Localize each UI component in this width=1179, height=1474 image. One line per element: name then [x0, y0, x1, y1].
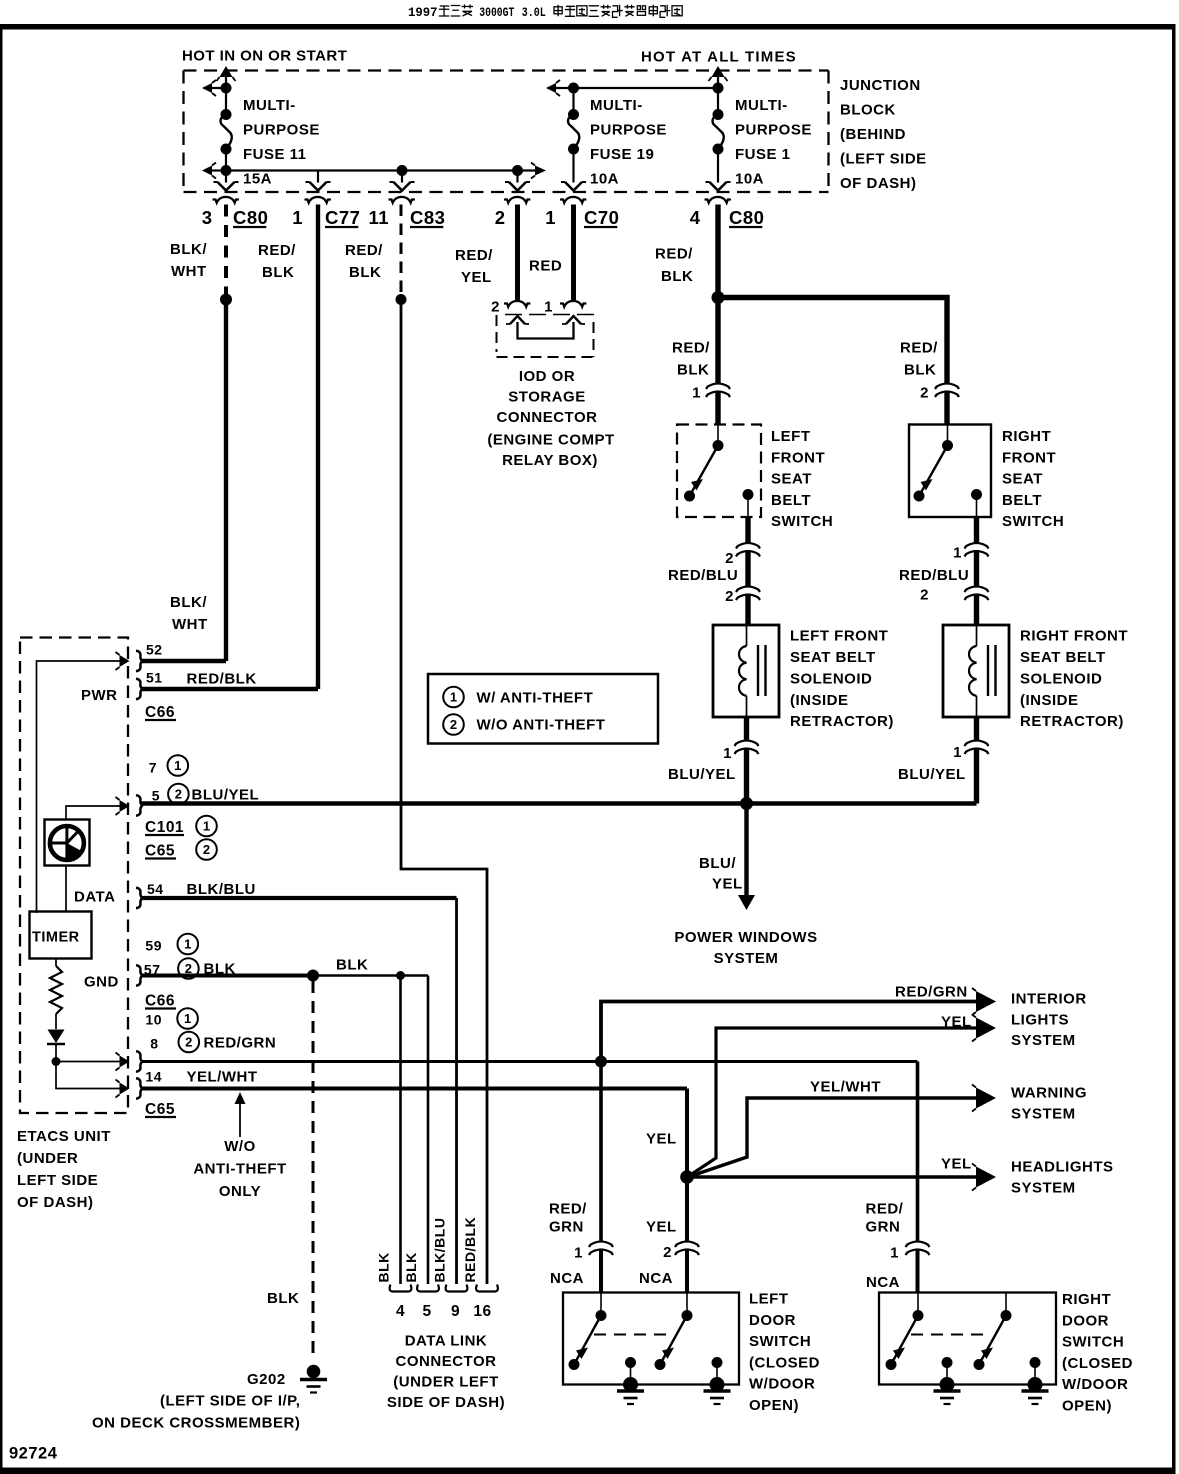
fuse F11 element: [225, 88, 227, 115]
svg-text:1: 1: [203, 819, 210, 834]
svg-text:BLK: BLK: [349, 264, 381, 281]
svg-text:BLK: BLK: [262, 264, 294, 281]
svg-text:YEL: YEL: [941, 1156, 972, 1173]
svg-text:5: 5: [152, 788, 160, 804]
svg-text:10A: 10A: [590, 171, 619, 188]
svg-text:RED/GRN: RED/GRN: [895, 984, 968, 1001]
svg-text:2: 2: [175, 787, 182, 802]
svg-text:(INSIDE: (INSIDE: [790, 692, 849, 709]
svg-text:52: 52: [146, 642, 163, 658]
ETACS pin 51 connector: [136, 679, 142, 699]
svg-text:RED/: RED/: [455, 247, 493, 264]
ETACS clock icon: [45, 820, 90, 866]
feed arrow to left (other circuits): [546, 83, 556, 93]
arrow to left (other circuits) at fuse11 bottom: [212, 169, 226, 171]
svg-text:1: 1: [723, 745, 732, 762]
DLC wire label BLK (pin5, rotated): [403, 1252, 419, 1282]
svg-text:59: 59: [145, 938, 162, 954]
svg-text:SWITCH: SWITCH: [1002, 513, 1064, 530]
svg-text:RED/: RED/: [672, 340, 710, 357]
svg-text:JUNCTION: JUNCTION: [840, 77, 921, 94]
svg-text:WHT: WHT: [171, 263, 207, 280]
svg-text:BLU/: BLU/: [699, 855, 736, 872]
inline connector pin 1 (right solenoid out): [965, 741, 989, 747]
svg-text:5: 5: [422, 1303, 431, 1320]
wire RED/BLK down and over to DLC pin 16: [401, 300, 487, 1285]
ETACS internal diode: [55, 1014, 57, 1029]
svg-text:RED/: RED/: [866, 1201, 904, 1218]
svg-text:C65: C65: [145, 1101, 175, 1118]
TIMER box: [30, 912, 92, 959]
svg-text:2: 2: [920, 385, 929, 402]
hot-at-all-times feed wire: [556, 87, 718, 89]
svg-text:BLK/: BLK/: [170, 241, 207, 258]
svg-text:1: 1: [953, 545, 962, 562]
ETACS pin 14 connector: [136, 1078, 142, 1098]
svg-text:GRN: GRN: [549, 1219, 584, 1236]
svg-text:SYSTEM: SYSTEM: [1011, 1180, 1076, 1197]
svg-text:FUSE 19: FUSE 19: [590, 146, 654, 163]
svg-text:RED/BLU: RED/BLU: [899, 567, 969, 584]
svg-text:C65: C65: [145, 843, 175, 860]
left front seat belt switch dashed box: [677, 425, 761, 518]
svg-text:NCA: NCA: [550, 1270, 584, 1287]
connector C80 pin 3 female: [213, 197, 239, 203]
fuse F19 element: [572, 88, 574, 115]
inline connector pin 2 lower (left): [736, 587, 760, 593]
svg-text:RED: RED: [529, 258, 562, 275]
wire BLK pin 57 ground bus: [142, 974, 314, 978]
splice dot on BLK/WHT: [220, 294, 232, 306]
svg-text:OPEN): OPEN): [1062, 1398, 1112, 1415]
svg-text:1: 1: [953, 744, 962, 761]
svg-text:RIGHT: RIGHT: [1062, 1291, 1111, 1308]
wire RED/YEL from C70-2: [515, 205, 520, 301]
junction dot YEL: [680, 1170, 694, 1184]
arrow to WARNING SYSTEM: [976, 1088, 996, 1109]
ETACS internal junction dot: [52, 1057, 61, 1066]
svg-text:BLU/YEL: BLU/YEL: [668, 766, 736, 783]
svg-text:92724: 92724: [9, 1445, 58, 1463]
svg-text:10A: 10A: [735, 171, 764, 188]
data link connector braces: [390, 1285, 412, 1292]
connector C70 pin 2 female: [504, 197, 530, 203]
svg-text:1: 1: [184, 1011, 191, 1026]
svg-text:BELT: BELT: [771, 492, 811, 509]
svg-text:16: 16: [473, 1303, 491, 1320]
left front seat belt solenoid L1: [713, 625, 779, 717]
wire RED/GRN pin 8 main: [142, 1060, 918, 1063]
wire RED/BLK branch to right seat belt switch: [718, 298, 947, 384]
svg-text:2: 2: [495, 207, 506, 228]
svg-text:LIGHTS: LIGHTS: [1011, 1012, 1069, 1029]
inline connector pin 1 (left switch): [706, 384, 730, 390]
wire YEL down to left door switch: [685, 1177, 689, 1241]
svg-text:YEL: YEL: [461, 269, 492, 286]
wire YEL to interior lights: [691, 1028, 976, 1175]
junction dot fuse1 top: [713, 83, 724, 94]
wire YEL/WHT to warning system: [691, 1098, 976, 1176]
svg-text:OF DASH): OF DASH): [17, 1194, 94, 1211]
svg-text:LEFT: LEFT: [771, 428, 811, 445]
inline connector pin 2 (right switch): [935, 384, 959, 390]
connector C70 pin 1 female: [560, 197, 586, 203]
svg-text:RED/: RED/: [655, 246, 693, 263]
svg-text:YEL/WHT: YEL/WHT: [187, 1069, 258, 1086]
wire pin 51 to RED/BLK: [142, 687, 319, 691]
arrow to POWER WINDOWS SYSTEM: [744, 804, 748, 896]
svg-text:C66: C66: [145, 704, 175, 721]
fuse F1 feed arrow from HOT AT ALL TIMES: [717, 76, 719, 88]
svg-text:SOLENOID: SOLENOID: [790, 670, 872, 687]
arrow to left (other circuits) at fuse11 top: [212, 87, 226, 89]
svg-text:PURPOSE: PURPOSE: [735, 122, 812, 139]
junction dot fuse11 bottom: [221, 165, 232, 176]
svg-text:BELT: BELT: [1002, 492, 1042, 509]
svg-text:FRONT: FRONT: [1002, 449, 1056, 466]
svg-text:YEL: YEL: [646, 1131, 677, 1148]
junction dot fuse19 top: [568, 83, 579, 94]
title CJK glyphs: [439, 6, 450, 16]
wire BLK to DLC pin 4: [399, 976, 402, 1285]
svg-text:RED/: RED/: [549, 1201, 587, 1218]
wire from right switch contact: [974, 517, 979, 543]
junction dot RED/GRN: [595, 1056, 607, 1068]
svg-text:GRN: GRN: [866, 1219, 901, 1236]
junction dot RED/BLK branch: [712, 291, 725, 304]
ETACS internal wire to pin 52: [37, 661, 121, 913]
svg-text:SIDE OF DASH): SIDE OF DASH): [387, 1394, 505, 1411]
svg-text:YEL: YEL: [646, 1219, 677, 1236]
svg-text:FRONT: FRONT: [771, 449, 825, 466]
svg-text:9: 9: [451, 1303, 460, 1320]
svg-text:CONNECTOR: CONNECTOR: [396, 1353, 497, 1370]
arrow to INTERIOR LIGHTS SYSTEM (RED/GRN): [976, 991, 996, 1012]
junction dot BLU/YEL bus: [740, 797, 753, 810]
svg-text:1: 1: [184, 937, 191, 952]
svg-text:OPEN): OPEN): [749, 1397, 799, 1414]
svg-text:2: 2: [663, 1244, 672, 1261]
svg-text:(UNDER LEFT: (UNDER LEFT: [393, 1374, 499, 1391]
ETACS pin 52 connector: [136, 651, 142, 671]
svg-text:RED/BLK: RED/BLK: [187, 671, 257, 688]
svg-text:SWITCH: SWITCH: [749, 1333, 811, 1350]
svg-text:BLK/BLU: BLK/BLU: [432, 1218, 448, 1283]
svg-text:RIGHT: RIGHT: [1002, 428, 1051, 445]
svg-text:W/O ANTI-THEFT: W/O ANTI-THEFT: [477, 717, 606, 734]
svg-text:C80: C80: [233, 207, 268, 228]
svg-text:4: 4: [396, 1303, 405, 1320]
svg-text:ON DECK CROSSMEMBER): ON DECK CROSSMEMBER): [92, 1415, 300, 1432]
left seat belt switch symbol: [717, 425, 719, 442]
svg-text:W/O: W/O: [224, 1138, 256, 1155]
svg-text:DATA LINK: DATA LINK: [405, 1333, 488, 1350]
wire below left solenoid: [744, 717, 749, 740]
svg-text:(LEFT SIDE OF I/P,: (LEFT SIDE OF I/P,: [160, 1393, 300, 1410]
svg-text:SEAT: SEAT: [771, 471, 812, 488]
wire BLK/WHT down to ETACS pin 52: [224, 300, 228, 662]
ETACS internal wire clock to timer: [65, 866, 67, 912]
svg-text:BLU/YEL: BLU/YEL: [898, 766, 966, 783]
wire RED/GRN down to right door switch: [916, 1062, 920, 1241]
svg-text:MULTI-: MULTI-: [590, 97, 643, 114]
splice dot on C83 wire: [396, 294, 407, 305]
junction dot BLK at G202 branch: [307, 970, 319, 982]
junction dot fuse11 top: [221, 83, 232, 94]
svg-text:2: 2: [450, 717, 457, 732]
svg-text:PURPOSE: PURPOSE: [243, 122, 320, 139]
svg-text:10: 10: [145, 1012, 162, 1028]
svg-text:LEFT FRONT: LEFT FRONT: [790, 628, 888, 645]
right door switch: [879, 1293, 1056, 1385]
svg-text:C70: C70: [584, 207, 619, 228]
IOD male arrows and shorting loop: [510, 316, 525, 324]
svg-text:MULTI-: MULTI-: [735, 97, 788, 114]
wire RED/GRN down to left door switch: [599, 1062, 603, 1241]
svg-text:BLU/YEL: BLU/YEL: [192, 787, 260, 804]
svg-text:2: 2: [491, 299, 500, 316]
svg-text:(CLOSED: (CLOSED: [1062, 1355, 1133, 1372]
svg-text:POWER WINDOWS: POWER WINDOWS: [674, 929, 817, 946]
svg-text:YEL: YEL: [712, 876, 743, 893]
svg-text:BLK: BLK: [403, 1252, 419, 1282]
svg-text:C66: C66: [145, 993, 175, 1010]
svg-text:RED/: RED/: [258, 242, 296, 259]
svg-text:(INSIDE: (INSIDE: [1020, 692, 1079, 709]
svg-text:7: 7: [149, 760, 157, 776]
svg-text:3: 3: [202, 207, 213, 228]
svg-text:BLK: BLK: [376, 1252, 392, 1282]
legend box W/ ANTI-THEFT, W/O ANTI-THEFT: [428, 674, 658, 744]
wire BLK/BLU pin 54 to DLC pin 9: [142, 896, 457, 900]
IOD dashed box: [496, 315, 498, 352]
svg-text:SOLENOID: SOLENOID: [1020, 670, 1102, 687]
ETACS internal resistor: [55, 959, 57, 967]
frame right border: [1172, 24, 1176, 1474]
svg-text:STORAGE: STORAGE: [508, 389, 585, 406]
svg-text:RELAY BOX): RELAY BOX): [502, 452, 598, 469]
svg-text:SEAT BELT: SEAT BELT: [1020, 649, 1106, 666]
svg-text:1: 1: [692, 385, 701, 402]
svg-text:HOT AT ALL TIMES: HOT AT ALL TIMES: [641, 49, 797, 66]
bus junction dot at C70 branch: [512, 165, 523, 176]
wire YEL/WHT from ETACS pin 14: [142, 1087, 688, 1091]
svg-text:1: 1: [450, 690, 457, 705]
fuse F11 feed arrow from HOT IN ON OR START: [225, 76, 227, 88]
svg-text:3000GT: 3000GT: [479, 6, 514, 20]
wire YEL to headlights: [687, 1175, 976, 1178]
junction dot BLK at DLC4 branch: [396, 971, 405, 980]
ETACS unit dashed box: [20, 638, 128, 1114]
ETACS pin 54 connector DATA: [136, 888, 142, 908]
svg-text:BLK: BLK: [904, 362, 936, 379]
svg-text:W/DOOR: W/DOOR: [749, 1376, 815, 1393]
svg-text:SEAT BELT: SEAT BELT: [790, 649, 876, 666]
wire RED/GRN up to interior lights: [601, 1002, 976, 1062]
ETACS internal wire to pin 8: [56, 1061, 120, 1063]
svg-text:RED/: RED/: [345, 242, 383, 259]
ETACS pin 5/7 connector: [136, 795, 142, 815]
inline connector pin 1 upper (right): [965, 543, 989, 549]
svg-text:PWR: PWR: [81, 687, 118, 704]
bus end arrow right: [535, 166, 546, 176]
svg-text:4: 4: [690, 207, 701, 228]
wire BLU/YEL bus from ETACS pin 5: [142, 801, 977, 805]
svg-text:RED/BLK: RED/BLK: [462, 1217, 478, 1283]
svg-text:2: 2: [725, 588, 734, 605]
svg-text:WARNING: WARNING: [1011, 1085, 1087, 1102]
svg-text:BLK: BLK: [677, 362, 709, 379]
svg-text:INTERIOR: INTERIOR: [1011, 991, 1087, 1008]
frame left border: [0, 24, 3, 1474]
svg-text:G202: G202: [247, 1371, 286, 1388]
right switch fixed contact: [971, 489, 982, 500]
wire BLK to G202 (dashed): [312, 981, 315, 1361]
left switch fixed contact: [743, 489, 754, 500]
svg-text:1: 1: [544, 299, 553, 316]
svg-text:CONNECTOR: CONNECTOR: [497, 409, 598, 426]
svg-text:LEFT: LEFT: [749, 1291, 789, 1308]
svg-text:54: 54: [147, 881, 164, 897]
svg-text:BLK: BLK: [267, 1290, 299, 1307]
svg-text:BLOCK: BLOCK: [840, 102, 896, 119]
connector C77 pin 1 female: [305, 197, 331, 203]
wire RED/BLK from C77-1 to ETACS pin 51: [316, 205, 320, 690]
svg-text:1: 1: [574, 1245, 583, 1262]
svg-text:RED/BLU: RED/BLU: [668, 567, 738, 584]
svg-text:DOOR: DOOR: [1062, 1312, 1109, 1329]
ETACS internal wire clock to pin 5: [66, 806, 120, 820]
svg-text:1: 1: [174, 758, 181, 773]
svg-text:3.0L: 3.0L: [522, 6, 546, 20]
wire BLK to DLC pin 5: [427, 976, 430, 1285]
svg-text:RED/: RED/: [900, 340, 938, 357]
svg-text:1: 1: [545, 207, 556, 228]
svg-text:HEADLIGHTS: HEADLIGHTS: [1011, 1159, 1114, 1176]
svg-text:2: 2: [725, 550, 734, 567]
inline connector pin 2 upper (left): [736, 543, 760, 549]
wire RED/BLK from C80-4: [715, 205, 720, 384]
right front seat belt switch box: [909, 425, 991, 518]
svg-text:RETRACTOR): RETRACTOR): [1020, 713, 1124, 730]
svg-text:NCA: NCA: [866, 1274, 900, 1291]
svg-text:FUSE 1: FUSE 1: [735, 146, 791, 163]
svg-text:FUSE 11: FUSE 11: [243, 146, 307, 163]
ETACS pin 8/10 connector: [136, 1051, 142, 1071]
svg-text:RED/GRN: RED/GRN: [204, 1035, 277, 1052]
svg-text:(BEHIND: (BEHIND: [840, 126, 906, 143]
svg-text:(ENGINE COMPT: (ENGINE COMPT: [487, 432, 614, 449]
ETACS pin 57/59 connector GND: [136, 965, 142, 985]
svg-text:C101: C101: [145, 819, 184, 836]
svg-text:2: 2: [185, 1035, 192, 1050]
svg-text:NCA: NCA: [639, 1270, 673, 1287]
svg-text:OF DASH): OF DASH): [840, 175, 917, 192]
svg-text:TIMER: TIMER: [32, 930, 80, 946]
svg-text:51: 51: [146, 670, 163, 686]
svg-text:LEFT SIDE: LEFT SIDE: [17, 1172, 98, 1189]
svg-text:SEAT: SEAT: [1002, 471, 1043, 488]
bus branch down to C77 pin 1: [317, 171, 319, 183]
svg-text:PURPOSE: PURPOSE: [590, 122, 667, 139]
fuse F1 element: [717, 88, 719, 115]
wire BLK/WHT from C80-3 (dashed): [224, 205, 228, 295]
DLC wire label BLK (pin4, rotated): [376, 1252, 392, 1282]
connector C83 pin 11 female: [389, 197, 415, 203]
right front seat belt solenoid L2: [943, 625, 1009, 717]
inline connector pin 2 (left door): [675, 1242, 699, 1248]
connector C80 pin 4 female: [705, 197, 731, 203]
svg-text:ETACS UNIT: ETACS UNIT: [17, 1128, 111, 1145]
junction block internal bus wire: [226, 169, 536, 171]
arrow to HEADLIGHTS SYSTEM: [976, 1167, 996, 1188]
svg-text:ANTI-THEFT: ANTI-THEFT: [193, 1161, 286, 1178]
svg-text:2: 2: [203, 842, 210, 857]
svg-text:YEL: YEL: [941, 1014, 972, 1031]
ETACS internal wire to pin 14: [56, 1062, 120, 1089]
fuse11 male pin down-arrow into C80: [225, 171, 227, 183]
svg-text:1: 1: [292, 207, 303, 228]
frame top border: [0, 24, 1176, 30]
svg-text:MULTI-: MULTI-: [243, 97, 296, 114]
inline connector pin 1 (left door): [589, 1242, 613, 1248]
frame bottom border: [0, 1468, 1176, 1474]
svg-text:SWITCH: SWITCH: [771, 513, 833, 530]
svg-text:1: 1: [890, 1245, 899, 1262]
inline connector pin 1 (left solenoid out): [735, 741, 759, 747]
svg-text:BLK/BLU: BLK/BLU: [187, 881, 256, 898]
DLC wire label BLK/BLU (pin9, rotated): [432, 1218, 448, 1283]
left door switch: [563, 1293, 739, 1385]
arrow to INTERIOR LIGHTS SYSTEM (YEL): [976, 1018, 996, 1039]
IOD connector female arcs: [504, 301, 530, 307]
svg-text:SYSTEM: SYSTEM: [714, 950, 779, 967]
svg-text:2: 2: [920, 587, 929, 604]
svg-text:SYSTEM: SYSTEM: [1011, 1032, 1076, 1049]
svg-text:BLK: BLK: [336, 957, 368, 974]
svg-text:RETRACTOR): RETRACTOR): [790, 713, 894, 730]
svg-text:8: 8: [150, 1036, 158, 1052]
junction block dashed outline: [184, 69, 829, 71]
svg-text:C80: C80: [729, 207, 764, 228]
wire from left switch contact: [745, 517, 750, 543]
ground G202: [307, 1365, 321, 1379]
inline connector pin 2 lower (right): [965, 587, 989, 593]
svg-text:W/ ANTI-THEFT: W/ ANTI-THEFT: [477, 690, 594, 707]
note arrow W/O ANTI-THEFT ONLY: [239, 1104, 241, 1137]
inline connector pin 1 (right door): [906, 1242, 930, 1248]
svg-text:(LEFT SIDE: (LEFT SIDE: [840, 151, 927, 168]
svg-text:HOT IN ON OR START: HOT IN ON OR START: [182, 48, 347, 65]
right seat belt switch symbol: [947, 425, 949, 442]
svg-text:(CLOSED: (CLOSED: [749, 1354, 820, 1371]
IOD connector separator line: [505, 314, 598, 316]
svg-text:C77: C77: [325, 207, 360, 228]
svg-text:1997: 1997: [408, 6, 438, 20]
svg-text:DOOR: DOOR: [749, 1312, 796, 1329]
svg-text:BLK: BLK: [661, 268, 693, 285]
DLC wire label RED/BLK (pin16, rotated): [462, 1217, 478, 1283]
svg-text:(UNDER: (UNDER: [17, 1150, 78, 1167]
bus branch down to C70 pin 2: [516, 171, 518, 183]
svg-text:SYSTEM: SYSTEM: [1011, 1106, 1076, 1123]
svg-text:14: 14: [145, 1069, 162, 1085]
svg-text:11: 11: [368, 207, 389, 228]
bus junction dot at C83 branch: [397, 165, 408, 176]
svg-text:W/DOOR: W/DOOR: [1062, 1376, 1128, 1393]
wire below right solenoid: [974, 717, 979, 740]
svg-text:DATA: DATA: [74, 889, 115, 906]
